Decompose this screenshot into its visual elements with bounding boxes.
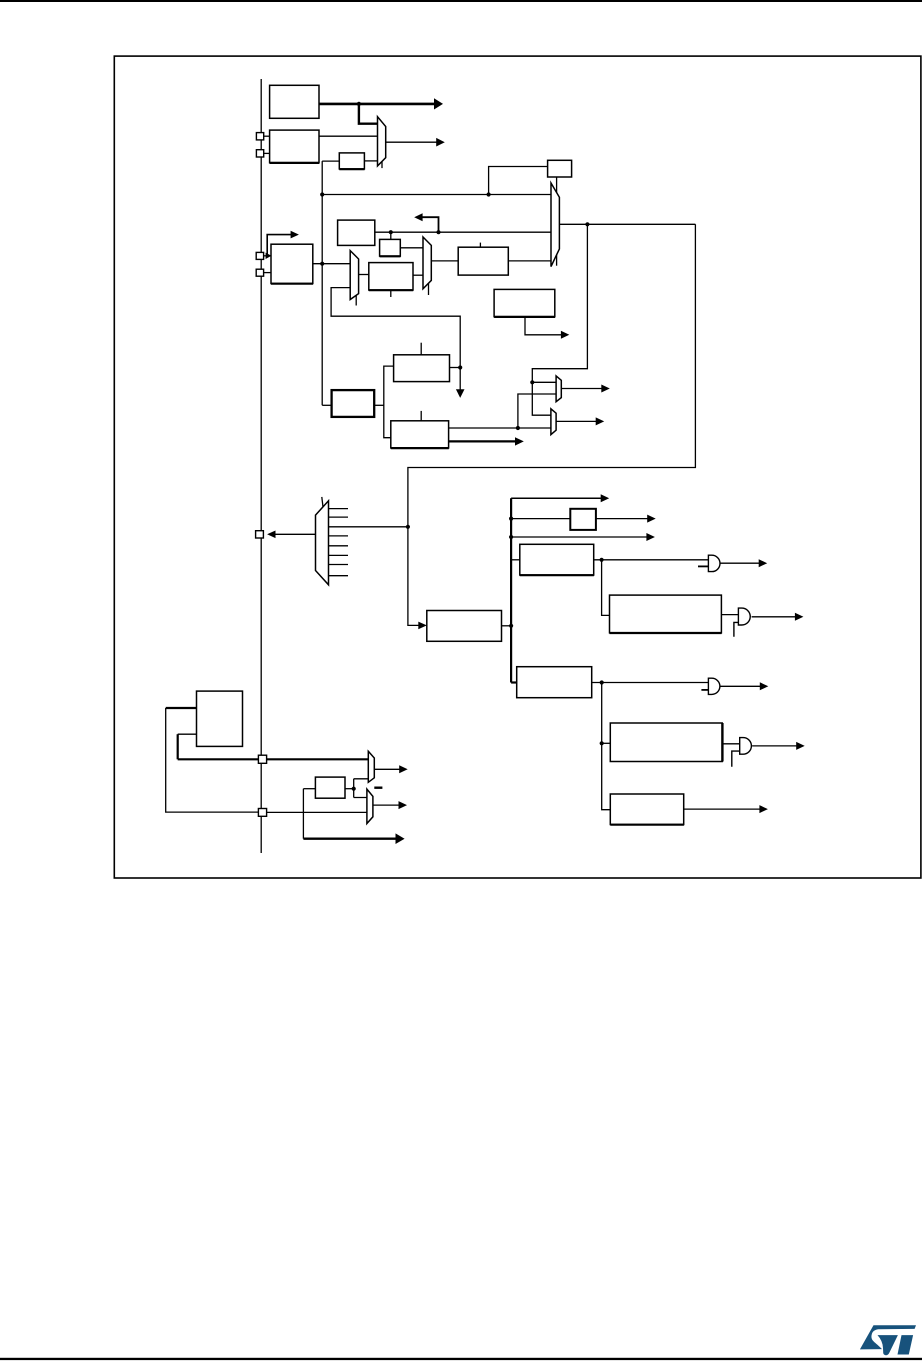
wire edge selector drop xyxy=(390,232,392,239)
node CK_INT branch xyxy=(357,102,361,106)
arrowhead TI1 tap xyxy=(291,231,299,239)
footer rule xyxy=(0,1358,922,1360)
edge compare stage shadow bottom xyxy=(494,316,555,318)
mux TRGO selector xyxy=(316,501,329,585)
wire CC2 branch down trunk xyxy=(602,683,611,810)
slave mode controller box xyxy=(338,220,375,245)
ETR prescaler box xyxy=(339,153,364,169)
compare output stage box xyxy=(494,289,555,316)
edge IC prescaler shadow bottom xyxy=(369,289,413,291)
wire bottom thick output arrow xyxy=(303,838,396,840)
wire OC1 to AND gate 2 xyxy=(721,614,738,616)
auto-reload preload tick xyxy=(420,343,422,355)
edge ETR box shadow bottom xyxy=(270,162,320,164)
wire CC1 output to AND gate 1 xyxy=(594,559,709,561)
wire CC2 output to AND gate 3 xyxy=(592,682,709,684)
IC prescaler tick below xyxy=(390,290,392,297)
pin pad ETR upper xyxy=(258,755,266,763)
IC1 mux select tick xyxy=(428,283,430,295)
wire UEV prescaler output arrow xyxy=(596,518,648,520)
wire trigger branch step route xyxy=(532,224,587,415)
node slave trigger junction xyxy=(509,624,513,628)
arrowhead bottom output xyxy=(396,833,405,844)
wire CC1 branch down to OC1 box xyxy=(602,560,610,616)
wire enable trunk vertical (thick) xyxy=(510,498,512,682)
wire trunk to UEV prescaler box xyxy=(511,518,570,520)
AND gate U2 output enable 2 xyxy=(738,608,750,625)
wire step branch into upper flag mux xyxy=(532,381,556,383)
arrowhead lower flag output xyxy=(596,417,605,425)
wire trunk to CC1 box xyxy=(511,559,520,561)
wire riser to encoder box xyxy=(489,167,548,195)
node trunk tap2 xyxy=(509,535,513,539)
pin pad TIMx_CH2 xyxy=(256,269,263,276)
pin pad TIMx_CH1 xyxy=(256,252,263,259)
capture compare register box xyxy=(458,247,508,275)
mux trigger selector TRGI xyxy=(551,183,559,267)
wire filter branch vertical xyxy=(302,789,304,839)
wire pad to ETR box upper xyxy=(264,135,270,137)
arrowhead into input stage xyxy=(266,253,272,259)
wire polarity stub (thick) xyxy=(374,787,382,789)
figure frame xyxy=(114,56,921,878)
wire filter input stub xyxy=(303,788,315,790)
node slave wire tap1 xyxy=(389,230,393,234)
wire ETR box lower link xyxy=(178,733,197,735)
node CC2 output branch xyxy=(600,680,604,684)
slave trigger controller box xyxy=(427,611,502,642)
wire edge selector to IC mux xyxy=(400,247,423,249)
peripheral bus line xyxy=(260,79,262,853)
update event generator box xyxy=(332,390,375,417)
mux upper flag selector xyxy=(556,376,561,402)
UEV prescaler small box xyxy=(570,509,596,530)
wire capture register to trigger mux xyxy=(508,260,551,262)
wire pad to lower polarity mux xyxy=(267,811,367,813)
edge selector shadow bottom xyxy=(380,255,401,257)
wire OC2 to AND gate 4 xyxy=(722,743,740,745)
wire compare stage down arrow xyxy=(525,317,561,335)
mux lower polarity selector xyxy=(367,789,373,823)
wire input filter output xyxy=(313,263,350,265)
edge counter shadow bottom xyxy=(391,447,449,449)
TI mux select tick xyxy=(355,294,357,306)
arrowhead lower polarity output xyxy=(399,801,408,809)
AND gate U4 output enable 4 xyxy=(740,738,752,755)
wire pad to input filter upper xyxy=(264,255,271,257)
external trigger input box xyxy=(197,691,243,746)
wire ARR output to junction xyxy=(450,367,461,369)
wire counter output to flag muxes xyxy=(449,427,551,429)
capture compare 1 register box xyxy=(520,544,594,575)
wire ETRF to trigger mux xyxy=(322,194,551,196)
pin pad TIMx_ETR2 xyxy=(256,150,263,157)
wire AND1 output arrow xyxy=(720,562,759,564)
AND gate 3 enable stub xyxy=(701,689,708,691)
edge CC1 shadow bottom xyxy=(520,574,594,576)
node trigger output branch xyxy=(585,222,589,226)
wire counter branch up to upper flag mux xyxy=(518,394,556,428)
wire TI1 tap arrow xyxy=(267,235,291,256)
wire ETR prescaler left drop xyxy=(322,160,339,162)
wire ETRF to update box xyxy=(322,404,331,406)
TRGO mux input stub 8 xyxy=(329,575,349,577)
wire enable trunk top arrow xyxy=(511,497,601,499)
internal clock box CK_INT xyxy=(270,85,319,118)
counter register box CNT xyxy=(391,421,449,448)
wire IC prescaler to IC mux xyxy=(413,274,423,276)
node OC2 tap xyxy=(600,741,604,745)
node slave wire tap2 xyxy=(436,230,440,234)
edge OC1 shadow bottom xyxy=(610,632,722,634)
wire filter branch split xyxy=(354,779,370,798)
wire TRGO mux input long xyxy=(329,526,408,528)
wire ETR prescaler to clock mux xyxy=(364,160,377,162)
ETR polarity and edge detector box xyxy=(270,130,319,163)
input filter and edge detector box xyxy=(271,244,313,283)
node counter output branch xyxy=(516,426,520,430)
wire ETR step down (thick) xyxy=(177,734,179,759)
interrupt output box xyxy=(610,794,683,825)
arrowhead into slave trigger box xyxy=(418,622,427,630)
output control 2 box xyxy=(610,723,722,762)
AND gate U1 output enable 1 xyxy=(708,555,720,571)
wire internal vertical bus ETRF xyxy=(321,161,323,405)
node ETRF tap xyxy=(320,192,324,196)
arrowhead UEV prescaler output xyxy=(647,515,656,523)
edge input filter shadow bottom xyxy=(271,283,313,285)
IC prescaler box xyxy=(369,263,413,290)
TRGO mux select flag xyxy=(322,497,324,510)
TRGO mux input stub 7 xyxy=(329,564,349,566)
wire pad to ETR box lower xyxy=(264,152,270,154)
ST logo xyxy=(860,1325,916,1355)
wire ARR feedback route xyxy=(331,288,460,368)
wire ETR main line to polarity mux (thick) xyxy=(178,758,369,760)
wire reset arrow to left xyxy=(422,217,438,232)
arrowhead upper polarity output xyxy=(399,765,408,773)
pin pad ETR lower xyxy=(258,809,266,817)
pin pad TIMx_ETR xyxy=(256,133,263,140)
mux clock source selector xyxy=(378,117,386,166)
node ARR output xyxy=(458,365,462,369)
counter preload tick xyxy=(420,411,422,421)
pin pad TRGO xyxy=(256,531,264,538)
arrowhead counter second output xyxy=(515,437,524,445)
header rule xyxy=(0,0,922,2)
arrowhead AND3 output xyxy=(760,682,769,690)
mux IC1 input selector xyxy=(423,237,431,289)
wire slave trigger output xyxy=(502,625,512,627)
wire update event down arrow xyxy=(459,368,461,390)
TRGO mux input stub 1 xyxy=(329,508,349,510)
wire TI mux to IC prescaler xyxy=(359,274,369,276)
node input filter tap xyxy=(320,262,324,266)
wire trunk bottom into CC2 box xyxy=(511,681,517,683)
TRGO mux input stub 4 xyxy=(329,535,349,537)
wire ETR loop left vertical xyxy=(166,708,259,812)
wire CK_INT branch to clock mux (thick) xyxy=(359,104,378,124)
wire update box link xyxy=(374,404,384,406)
node step branch to upper flag mux xyxy=(530,380,534,384)
wire IC mux to capture register xyxy=(431,260,458,262)
external trigger filter box xyxy=(315,777,345,798)
wire trigger mux output TRGC xyxy=(559,223,695,225)
mux TI input selector xyxy=(350,251,358,300)
arrowhead interrupt output xyxy=(759,805,768,813)
TRGO mux input stub 2 xyxy=(329,516,349,518)
output control 1 box xyxy=(610,595,722,633)
wire encoder box select drop xyxy=(556,177,558,266)
arrowhead update event xyxy=(456,389,465,398)
AND gate U3 output enable 3 xyxy=(708,678,720,694)
mux lower flag selector xyxy=(551,409,556,435)
arrowhead TRGO to pad xyxy=(267,531,275,539)
edge selector small box xyxy=(380,239,401,256)
arrowhead reset arrow xyxy=(414,213,422,221)
mux upper polarity selector xyxy=(368,751,374,782)
wire slave controller to trigger mux xyxy=(375,231,551,233)
wire AND2 output arrow xyxy=(752,616,796,618)
wire AND4 output arrow xyxy=(752,745,796,747)
wire AND3 output arrow xyxy=(721,685,761,687)
encoder interface box xyxy=(548,160,572,177)
wire trunk tap2 arrow xyxy=(511,536,647,538)
arrowhead compare stage output xyxy=(561,331,569,339)
arrowhead AND4 output xyxy=(796,742,805,750)
arrowhead AND2 output xyxy=(795,613,804,621)
node trunk tap1 xyxy=(509,517,513,521)
AND gate 1 enable stub xyxy=(698,565,708,567)
capture compare preload tick xyxy=(479,243,481,248)
wire ETR pin link (thick) xyxy=(166,707,197,709)
wire CK_INT output (heavy) xyxy=(319,103,435,106)
wire upper polarity output arrow xyxy=(374,768,399,770)
arrowhead trunk tap2 xyxy=(646,533,655,541)
wire pad to input filter lower xyxy=(264,272,271,274)
node ETRF riser xyxy=(487,192,491,196)
wire filter output xyxy=(345,788,354,790)
wire interrupt output arrow xyxy=(684,808,760,810)
arrowhead CK_INT output xyxy=(434,98,443,109)
TRGO mux input stub 5 xyxy=(329,545,349,547)
wire clock mux output xyxy=(386,141,437,143)
wire TRGO output arrow to pad xyxy=(275,533,315,535)
TRGO mux input stub 6 xyxy=(329,554,349,556)
wire ETR box to clock mux xyxy=(319,135,378,137)
clock mux select tick xyxy=(381,159,383,169)
node TRGO mux tap xyxy=(406,525,410,529)
node filter output branch xyxy=(352,787,356,791)
wire counter second output arrow (thick) xyxy=(449,440,516,442)
wire upper flag mux output xyxy=(561,388,601,390)
AND gate 2 enable stub xyxy=(734,622,739,636)
capture compare 2 register box xyxy=(517,667,592,698)
wire OC2 tap stub xyxy=(602,742,611,744)
node CC1 output branch xyxy=(600,558,604,562)
arrowhead AND1 output xyxy=(759,559,768,567)
edge interrupt box shadow bottom xyxy=(610,824,684,826)
wire ARR left link xyxy=(384,366,394,438)
edge ETR prescaler shadow bottom xyxy=(339,168,364,170)
wire master mode route to slave input xyxy=(408,224,696,625)
wire lower flag mux output xyxy=(556,420,596,422)
auto-reload register box ARR xyxy=(394,355,450,382)
arrowhead enable top xyxy=(601,494,610,502)
arrowhead upper flag output xyxy=(601,385,610,393)
wire lower polarity output arrow xyxy=(373,804,399,806)
edge OC2 shadow right xyxy=(721,723,723,762)
arrowhead clock mux output xyxy=(436,138,445,147)
AND gate 4 enable stub xyxy=(732,751,740,767)
